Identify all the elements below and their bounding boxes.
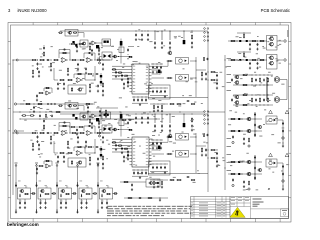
ground [205, 78, 207, 81]
wire decoupling rail [132, 96, 148, 98]
capacitor C12 [88, 52, 91, 54]
junction [77, 183, 78, 184]
wire [40, 199, 42, 202]
resistor R37 [251, 59, 257, 60]
sheet inner border frame [11, 25, 289, 219]
ground [153, 186, 155, 189]
reference designator labels [236, 36, 282, 49]
junction [59, 111, 62, 114]
transistor Q6 [269, 37, 274, 41]
reference block [119, 47, 124, 53]
capacitor C84 [121, 147, 123, 150]
wire protection row [228, 130, 262, 132]
resistor R30 [124, 75, 128, 76]
approval stamp box [281, 209, 289, 217]
resistor R55 [242, 104, 248, 105]
ground [147, 38, 149, 41]
ground [191, 46, 193, 49]
junction [77, 132, 78, 133]
junction [164, 163, 167, 166]
net arrow [36, 164, 38, 166]
junction [43, 59, 44, 60]
resistor R44 [176, 103, 181, 104]
wire [24, 199, 26, 202]
transistor Q15 [234, 95, 239, 99]
junction [241, 173, 242, 174]
wire pin to driver [152, 61, 169, 66]
resistor R71 [32, 143, 33, 148]
driver pair block [267, 36, 278, 51]
resistor R22 [58, 32, 63, 33]
resistor R66 [121, 119, 126, 120]
wire protection row [228, 118, 262, 120]
resistor R126 [106, 193, 111, 194]
resistor R35 [243, 34, 244, 39]
wire supply stem [56, 166, 58, 213]
capacitor C123 [15, 184, 17, 187]
wire to modulator [103, 59, 110, 61]
resistor R78 [79, 132, 85, 133]
op-amp U2 [86, 58, 93, 63]
ground [201, 78, 203, 81]
capacitor C36 [249, 62, 251, 65]
limiter diode pack DA [102, 52, 112, 60]
wire [43, 45, 45, 46]
capacitor C106 [232, 178, 234, 181]
ground [36, 172, 38, 175]
resistor R54 [242, 94, 248, 95]
driver transistor Q10 [179, 59, 183, 63]
junction [160, 87, 163, 90]
capacitor C56 [141, 116, 143, 119]
warning triangle mark [285, 153, 289, 156]
capacitor C47 [186, 100, 189, 102]
title block header cells [230, 197, 289, 219]
capacitor C101 [254, 156, 256, 159]
capacitor C137 [106, 201, 108, 204]
wire bus link [208, 111, 225, 113]
ground [38, 75, 40, 78]
resistor R2 [70, 43, 75, 44]
resistor R1 [191, 35, 192, 40]
resistor R17 [77, 73, 82, 74]
junction [156, 163, 159, 166]
ground [205, 154, 207, 157]
reference designator labels [116, 60, 155, 99]
resistor R36 [230, 59, 236, 60]
ground [123, 87, 125, 90]
mute relay block [65, 103, 78, 110]
junction [254, 173, 255, 174]
wire bias [237, 51, 251, 53]
transistor Q5 [113, 55, 117, 58]
resistor R76 [62, 125, 67, 126]
mute relay block [65, 30, 78, 37]
capacitor C78 [102, 162, 104, 165]
transistor Q16 [234, 101, 239, 105]
diode D1 [154, 41, 156, 45]
transistor Q35 [101, 189, 105, 192]
resistor R6 [39, 59, 45, 60]
junction [94, 79, 95, 80]
capacitor C26 [127, 80, 129, 83]
transistor Q9 [269, 61, 274, 65]
ground [97, 90, 99, 93]
capacitor C98 [282, 129, 284, 132]
resistor R115 [210, 79, 215, 80]
capacitor C37 [257, 62, 259, 65]
junction [255, 84, 258, 87]
capacitor C135 [97, 184, 99, 187]
reference designator labels [30, 125, 110, 159]
ground [147, 121, 149, 124]
capacitor C3 [147, 33, 149, 36]
resistor R84 [77, 146, 82, 147]
junction [160, 163, 163, 166]
resistor R9 [62, 52, 67, 53]
ground [97, 163, 99, 166]
resistor R69 [45, 114, 46, 118]
reference designator labels [152, 132, 208, 183]
resistor R63 [37, 103, 43, 104]
value label [81, 200, 83, 203]
transistor Q2 [77, 88, 81, 91]
wire drop [183, 31, 185, 40]
resistor R96 [118, 145, 122, 146]
ground [85, 145, 87, 148]
junction [27, 114, 30, 117]
reference designator labels [213, 67, 227, 88]
capacitor C107 [243, 180, 245, 183]
ground [57, 160, 59, 163]
wire gate rail [233, 74, 273, 76]
capacitor C54 [231, 98, 233, 101]
capacitor C61 [33, 106, 35, 109]
junction [37, 59, 38, 60]
junction [249, 59, 250, 60]
wire [101, 199, 103, 202]
regulator block VR4 [79, 188, 92, 199]
resistor R108 [169, 179, 174, 180]
junction [89, 111, 92, 114]
net name labels column [227, 58, 232, 171]
warning triangle mark [269, 153, 273, 156]
junction [50, 132, 51, 133]
junction [160, 63, 163, 66]
resistor R10 [71, 59, 77, 60]
junction [179, 111, 182, 114]
wire output join [284, 80, 287, 100]
resistor R114 [210, 71, 215, 72]
value label [60, 200, 62, 203]
capacitor C48 [207, 58, 209, 61]
resistor R123 [73, 193, 77, 194]
resistor R75 [53, 132, 59, 133]
value label [80, 180, 83, 183]
capacitor C82 [36, 167, 38, 170]
ESD warning triangle [230, 207, 245, 217]
value label [87, 186, 89, 189]
junction [254, 161, 255, 162]
capacitor C57 [147, 116, 149, 119]
wire drop [154, 114, 156, 123]
wire right bus 2 [224, 55, 226, 190]
resistor R93 [38, 165, 43, 166]
transistor Q18 [167, 134, 171, 137]
capacitor C134 [86, 201, 88, 204]
junction [19, 111, 22, 114]
wire aux2 [124, 197, 168, 199]
junction [69, 132, 70, 133]
value label [66, 186, 68, 189]
capacitor C128 [45, 201, 47, 204]
capacitor C70 [63, 122, 66, 124]
capacitor C49 [255, 78, 257, 81]
ground [121, 151, 123, 154]
wire IC input fan [112, 66, 130, 79]
resistor R42 [201, 72, 202, 77]
terminal J11 [14, 103, 16, 105]
wire left bus [12, 60, 14, 195]
capacitor C81 [95, 146, 98, 148]
diode D29 [238, 173, 240, 175]
ground [32, 148, 34, 151]
junction [183, 30, 186, 33]
wire supply stem [36, 166, 38, 213]
resistor R101 [248, 138, 249, 143]
transistor Q1 [167, 51, 171, 54]
wire aux [120, 181, 146, 183]
junction [191, 30, 194, 33]
junction [39, 118, 42, 121]
electrolytic capacitor C92 [120, 114, 123, 119]
resistor R86 [89, 157, 90, 162]
net label [76, 163, 79, 164]
capacitor C31 [145, 98, 147, 101]
ground [127, 85, 129, 88]
ground [161, 110, 163, 113]
wire [106, 199, 108, 202]
resistor R41 [167, 77, 173, 78]
rectifier diode D21 [75, 117, 77, 120]
wire [43, 118, 45, 119]
junction [153, 103, 156, 106]
capacitor C64 [128, 119, 131, 121]
ground [282, 145, 284, 148]
resistor R50 [242, 84, 248, 85]
wire feedback [59, 53, 70, 60]
wire gate drive [228, 40, 267, 42]
net label [56, 163, 59, 164]
wire bank rail low [150, 171, 168, 173]
ground [169, 129, 171, 132]
op-amp U5 [45, 91, 51, 95]
value label [45, 184, 47, 187]
wire stage in [54, 68, 58, 80]
junction [161, 103, 164, 106]
junction [127, 126, 130, 129]
junction [164, 87, 167, 90]
terminal J9 [232, 184, 234, 186]
ground [169, 46, 171, 49]
transistor Q31 [19, 189, 23, 192]
resistor R11 [79, 59, 85, 60]
wire cap rail [151, 139, 163, 141]
wire IC input fan [112, 139, 130, 152]
capacitor C76 [63, 155, 65, 158]
ground [216, 157, 218, 160]
capacitor C50 [263, 78, 265, 81]
value label [107, 186, 109, 189]
resistor R100 [230, 130, 236, 131]
resistor R19 [89, 84, 90, 89]
ground [56, 211, 58, 214]
wire [59, 49, 63, 51]
wire driver bus [195, 133, 197, 173]
ground [164, 95, 166, 98]
reference designator labels [228, 109, 284, 143]
capacitor C95 [254, 123, 256, 126]
junction [259, 74, 262, 77]
resistor R48 [203, 57, 204, 61]
resistor R81 [89, 119, 90, 124]
wire drop [161, 31, 163, 40]
ground [249, 67, 251, 70]
junction [33, 103, 34, 104]
resistor R67 [21, 115, 26, 116]
resistor R89 [58, 105, 63, 106]
resistor R88 [73, 105, 77, 106]
resistor R31 [128, 56, 132, 57]
junction [257, 40, 258, 41]
capacitor C5 [191, 41, 193, 44]
ground [123, 160, 125, 163]
junction [76, 126, 79, 129]
wire driver out [190, 60, 196, 62]
limiter diode pack DB [102, 125, 112, 133]
capacitor C17 [97, 84, 99, 87]
junction [13, 133, 14, 134]
junction [156, 87, 159, 90]
gate driver UA2 [176, 75, 189, 82]
junction [267, 84, 270, 87]
jumper pad grid [204, 111, 209, 125]
terminal J2 [284, 40, 286, 42]
junction [159, 73, 162, 76]
capacitor C90 [141, 171, 143, 174]
clamp box [102, 39, 111, 46]
capacitor C104 [282, 165, 284, 168]
capacitor C20 [85, 67, 87, 70]
junction [137, 96, 140, 99]
junction [57, 183, 58, 184]
capacitor C105 [282, 172, 284, 175]
wire ground rail [132, 102, 148, 104]
junction [254, 118, 255, 119]
capacitor C86 [127, 153, 129, 156]
junction [154, 30, 157, 33]
wire mid bus 1 [13, 111, 205, 113]
snubber diode D14 [158, 70, 160, 74]
junction [251, 74, 254, 77]
junction [283, 143, 284, 144]
capacitor C75 [57, 155, 59, 158]
wire mid bus 2 [20, 118, 160, 120]
junction [267, 74, 270, 77]
op-amp U3 [76, 78, 83, 83]
ground [36, 99, 38, 102]
ground [135, 121, 137, 124]
capacitor C85 [127, 150, 129, 153]
resistor R46 [161, 105, 162, 109]
capacitor C62 [87, 106, 89, 109]
capacitor C34 [249, 43, 251, 46]
junction [267, 94, 270, 97]
snubber diode D30 [158, 146, 160, 150]
op-amp U1 [61, 58, 68, 63]
capacitor C60 [76, 129, 78, 132]
wire protect chain [100, 73, 102, 86]
resistor R111 [161, 181, 162, 185]
junction [259, 104, 262, 107]
resistor R25 [88, 73, 93, 74]
relay KB [68, 158, 86, 167]
ground [102, 167, 104, 170]
clamp box [102, 112, 111, 119]
resistor R104 [248, 181, 249, 186]
resistor R117 [210, 157, 215, 158]
resistor R107 [201, 148, 202, 153]
IC UB pins [130, 139, 152, 165]
capacitor C117 [186, 176, 189, 178]
resistor R16 [59, 79, 65, 80]
junction [195, 136, 198, 139]
junction [152, 163, 155, 166]
diode D13 [246, 59, 248, 61]
wire vertical [120, 39, 122, 64]
junction [91, 103, 92, 104]
ground [135, 38, 137, 41]
reference designator labels [154, 62, 203, 106]
wire drain [280, 99, 284, 101]
net arrow [15, 164, 17, 166]
junction [152, 87, 155, 90]
junction [129, 129, 130, 130]
value label [40, 200, 42, 203]
capacitor C9 [46, 59, 49, 61]
junction [92, 73, 95, 76]
rectifier diode D20 [72, 114, 74, 117]
wire mute link [78, 106, 84, 111]
wire supply stem [77, 166, 79, 213]
wire feedback [84, 126, 95, 133]
opto diode D [274, 162, 276, 165]
diode D27 [238, 130, 240, 132]
capacitor C51 [231, 78, 233, 81]
junction [145, 169, 148, 172]
resistor R26 [38, 92, 43, 93]
junction [254, 130, 255, 131]
net label [35, 163, 38, 164]
capacitor C41 [205, 72, 207, 75]
capacitor C44 [160, 90, 162, 93]
capacitor C113 [156, 166, 158, 169]
wire [96, 107, 118, 109]
capacitor C15 [57, 82, 59, 85]
resistor R106 [167, 153, 173, 154]
junction [224, 59, 227, 62]
capacitor C133 [81, 201, 83, 204]
